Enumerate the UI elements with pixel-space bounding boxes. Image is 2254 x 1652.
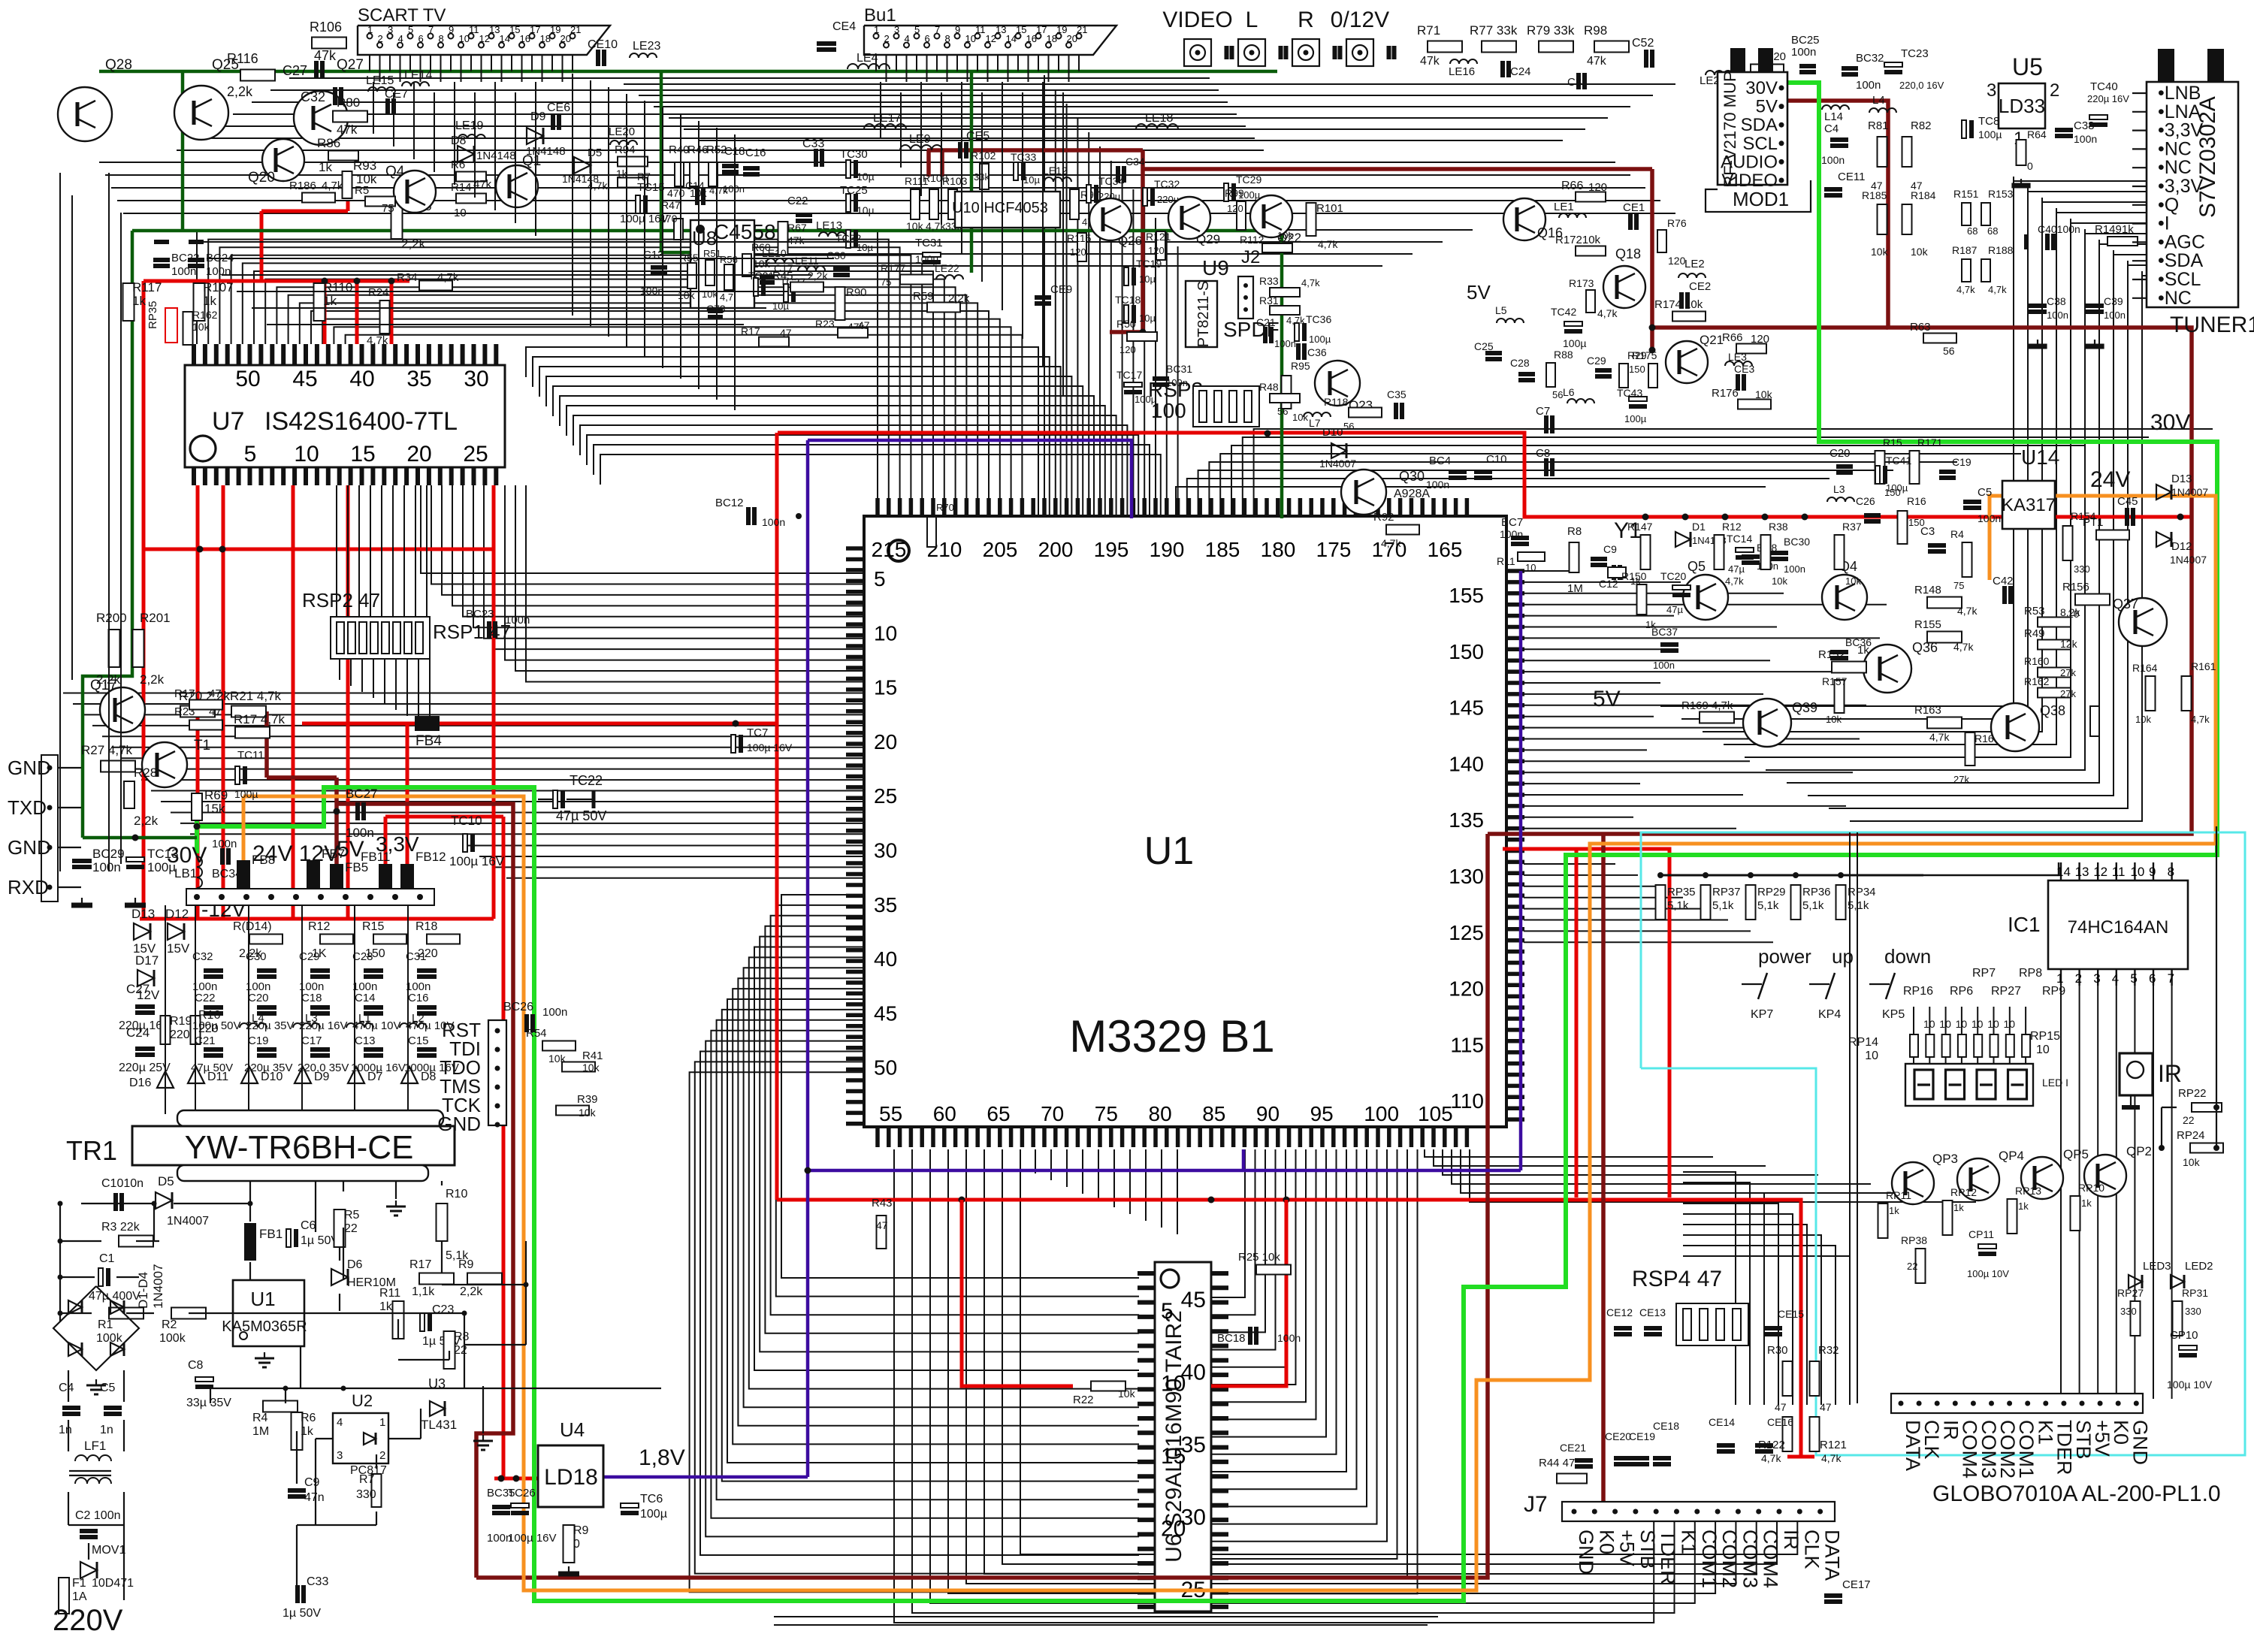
resistor R69 xyxy=(192,793,202,820)
svg-text:17: 17 xyxy=(1036,24,1047,35)
capacitor CE15 xyxy=(1764,1326,1782,1330)
svg-text:30V: 30V xyxy=(1745,78,1778,98)
svg-text:R16: R16 xyxy=(1907,495,1926,507)
resistor RP10 xyxy=(2071,1196,2080,1231)
capacitor CE5 xyxy=(958,142,962,159)
svg-text:D13: D13 xyxy=(131,907,155,921)
svg-text:LE23: LE23 xyxy=(633,40,660,53)
resistor R115 xyxy=(1077,233,1086,261)
svg-text:27k: 27k xyxy=(1953,774,1969,785)
svg-text:TC14: TC14 xyxy=(1727,533,1752,545)
svg-text:10µ: 10µ xyxy=(857,204,875,216)
svg-text:•I: •I xyxy=(2158,213,2170,234)
capacitor BC26 xyxy=(524,1014,529,1032)
svg-text:R12: R12 xyxy=(1722,521,1742,533)
svg-text:8: 8 xyxy=(945,33,950,44)
svg-text:TR1: TR1 xyxy=(66,1135,117,1166)
svg-text:TC29: TC29 xyxy=(1236,174,1261,186)
inductor LE19 xyxy=(458,134,485,139)
svg-text:R17: R17 xyxy=(741,325,760,337)
svg-text:R148: R148 xyxy=(1914,584,1941,596)
transistor Q25 xyxy=(174,86,228,140)
svg-text:5,1k: 5,1k xyxy=(1802,899,1824,912)
capacitor TC13 xyxy=(126,857,144,862)
svg-text:LE2: LE2 xyxy=(1684,258,1705,270)
svg-text:7: 7 xyxy=(935,24,940,35)
diode D11 xyxy=(188,1067,204,1083)
resistor R19 xyxy=(161,1016,171,1044)
capacitor C27t xyxy=(314,61,319,79)
svg-text:16: 16 xyxy=(1026,33,1037,44)
svg-text:C27: C27 xyxy=(283,63,307,78)
svg-text:R117: R117 xyxy=(132,280,162,294)
svg-text:R186: R186 xyxy=(289,180,316,192)
svg-text:10k: 10k xyxy=(1772,575,1787,587)
svg-text:TUNER1: TUNER1 xyxy=(2170,313,2254,337)
svg-text:C29: C29 xyxy=(1587,355,1606,367)
resistor R47 xyxy=(674,219,683,240)
svg-text:3: 3 xyxy=(2093,971,2100,986)
svg-text:D13: D13 xyxy=(2171,473,2192,485)
svg-text:R9: R9 xyxy=(458,1258,474,1271)
capacitor CE6 xyxy=(551,113,555,130)
resistor R162t xyxy=(183,312,193,345)
capacitor C26 xyxy=(1864,513,1881,518)
capacitor CE21 xyxy=(1575,1458,1593,1463)
svg-text:2,2k: 2,2k xyxy=(134,814,159,828)
svg-text:R45: R45 xyxy=(772,270,793,282)
resistor R147 xyxy=(1641,535,1651,569)
resistor R93 xyxy=(343,171,352,198)
svg-text:IR: IR xyxy=(1780,1530,1802,1550)
svg-text:4,7k: 4,7k xyxy=(1318,238,1338,250)
svg-text:CE4: CE4 xyxy=(832,20,856,33)
IC U7 IS42S16400-7TL body xyxy=(185,365,505,467)
svg-text:10: 10 xyxy=(2068,608,2080,620)
capacitor TC32b xyxy=(1143,188,1147,206)
svg-text:COM2: COM2 xyxy=(1718,1530,1741,1588)
svg-text:15k: 15k xyxy=(204,802,225,816)
capacitor TC31 xyxy=(923,252,941,257)
resistor R80 xyxy=(333,111,367,122)
svg-text:CE19: CE19 xyxy=(1629,1430,1655,1442)
svg-text:2,2k: 2,2k xyxy=(239,947,262,960)
resistor R16m xyxy=(1898,511,1908,544)
svg-text:C7: C7 xyxy=(1536,405,1550,418)
svg-text:4,7k: 4,7k xyxy=(1988,284,2007,295)
svg-text:BC4: BC4 xyxy=(1429,455,1451,467)
svg-text:C24: C24 xyxy=(126,1025,150,1040)
svg-text:R98: R98 xyxy=(1584,23,1607,38)
IC U1b KA5M0365R xyxy=(233,1280,304,1346)
svg-text:IC1: IC1 xyxy=(2008,913,2041,936)
diode D8 xyxy=(401,1067,418,1083)
svg-text:R39: R39 xyxy=(577,1093,598,1106)
svg-text:BC7: BC7 xyxy=(1501,516,1523,529)
svg-text:2,2k: 2,2k xyxy=(948,292,970,305)
svg-text:R29: R29 xyxy=(1627,349,1647,361)
svg-text:RP16: RP16 xyxy=(1903,985,1933,998)
wire bus: U1 left pins 27-32 feed xyxy=(466,846,864,878)
resistor R17b xyxy=(235,727,270,738)
svg-text:R76: R76 xyxy=(1667,217,1687,229)
svg-text:D12: D12 xyxy=(165,907,189,921)
capacitor C30m xyxy=(833,267,850,271)
svg-text:LD18: LD18 xyxy=(544,1465,598,1490)
svg-text:R5: R5 xyxy=(355,184,369,197)
svg-text:20: 20 xyxy=(874,730,897,754)
svg-text:47k: 47k xyxy=(1420,55,1440,68)
svg-text:LE15: LE15 xyxy=(366,74,394,87)
wire bus: bottom long horizontals xyxy=(774,1617,1438,1625)
svg-text:R59: R59 xyxy=(913,290,934,303)
svg-text:LE3: LE3 xyxy=(1728,351,1747,363)
svg-text:5,1k: 5,1k xyxy=(1667,899,1689,912)
capacitor TC6 xyxy=(621,1503,639,1508)
transistor Q26 xyxy=(1089,198,1132,240)
svg-text:2: 2 xyxy=(884,33,890,44)
svg-text:100k: 100k xyxy=(159,1332,186,1345)
wire bus: tuner area vertical bundle xyxy=(1660,177,2147,821)
resistor R16b xyxy=(191,1016,201,1044)
svg-text:GND: GND xyxy=(437,1113,481,1135)
svg-text:•SCL: •SCL xyxy=(2158,269,2201,290)
svg-text:R93: R93 xyxy=(353,159,376,173)
capacitor C33m xyxy=(814,149,818,167)
svg-text:D10: D10 xyxy=(1322,426,1343,439)
resistor R117 xyxy=(123,283,134,321)
capacitor CP11 xyxy=(1978,1244,1996,1249)
capacitor BC12 xyxy=(746,507,751,525)
keypad bus xyxy=(1660,874,1923,877)
resistor R49 xyxy=(2038,640,2071,650)
svg-text:10k: 10k xyxy=(192,321,210,333)
transistor Q36 xyxy=(1863,645,1911,693)
optocoupler U2 PC817 xyxy=(333,1413,388,1463)
svg-text:9: 9 xyxy=(955,24,960,35)
svg-text:R46: R46 xyxy=(687,143,709,156)
svg-text:R64: R64 xyxy=(2027,128,2047,140)
capacitor C73 xyxy=(708,309,723,313)
svg-text:100: 100 xyxy=(1364,1102,1399,1125)
resistor RP27b xyxy=(2131,1301,2141,1336)
resistor R71 xyxy=(1428,41,1462,53)
svg-text:R53: R53 xyxy=(2024,605,2045,618)
svg-text:R48: R48 xyxy=(1259,381,1279,393)
svg-text:R152: R152 xyxy=(1818,648,1845,661)
svg-text:1k: 1k xyxy=(319,160,332,174)
svg-text:C9: C9 xyxy=(1603,543,1617,555)
svg-text:4,7k: 4,7k xyxy=(1953,641,1974,653)
svg-text:C6: C6 xyxy=(301,1219,316,1232)
svg-text:TC15: TC15 xyxy=(637,181,665,194)
wire bus: keypad and display wiring staircase xyxy=(1683,977,2172,1405)
svg-text:C9: C9 xyxy=(304,1476,320,1489)
svg-text:R161: R161 xyxy=(2191,660,2216,672)
wire red bottom rail to R122 xyxy=(777,1200,1801,1457)
svg-text:LF1: LF1 xyxy=(84,1439,106,1453)
svg-text:CE9: CE9 xyxy=(1050,283,1072,296)
resistor R77 xyxy=(1482,41,1516,53)
svg-text:120: 120 xyxy=(1668,255,1686,267)
svg-text:330: 330 xyxy=(2185,1306,2201,1317)
svg-text:C32: C32 xyxy=(301,89,325,104)
svg-text:2: 2 xyxy=(379,1449,385,1462)
svg-text:R185: R185 xyxy=(1862,189,1887,201)
svg-text:R177: R177 xyxy=(881,262,906,274)
resistor R17t xyxy=(189,700,222,710)
wire red R22 branch xyxy=(962,1200,1073,1386)
svg-text:1k: 1k xyxy=(301,1425,314,1438)
capacitor TC19 xyxy=(1124,267,1129,285)
transistor Q4 xyxy=(394,171,436,213)
svg-text:R157: R157 xyxy=(1822,675,1848,687)
capacitor TC41 xyxy=(1875,466,1880,484)
resistor R152 xyxy=(1832,662,1866,673)
svg-text:120: 120 xyxy=(1148,245,1165,256)
diode D9 xyxy=(295,1067,311,1083)
svg-text:C22: C22 xyxy=(787,195,808,207)
svg-text:RP37: RP37 xyxy=(1712,886,1741,898)
svg-text:1k: 1k xyxy=(132,294,146,308)
resistor R60 xyxy=(742,254,751,276)
capacitor C21m xyxy=(1263,327,1267,343)
wire psu area connections xyxy=(60,1181,661,1600)
transistor T1 xyxy=(142,742,187,787)
svg-text:•NC: •NC xyxy=(2158,138,2192,159)
svg-text:1K: 1K xyxy=(312,947,327,960)
svg-text:R37: R37 xyxy=(1842,521,1862,533)
svg-text:100n: 100n xyxy=(1277,1332,1301,1344)
resistor R149 xyxy=(2107,237,2138,246)
ferrite FB5 xyxy=(330,864,343,892)
svg-text:120: 120 xyxy=(1751,333,1769,346)
transistor Q30 xyxy=(1341,470,1386,515)
svg-text:120: 120 xyxy=(1449,977,1484,1001)
wire red right side branch xyxy=(1503,849,1669,1197)
resistor R7t xyxy=(618,178,648,188)
svg-text:15V: 15V xyxy=(167,941,190,956)
svg-text:R169 4,7k: R169 4,7k xyxy=(1681,699,1733,712)
svg-text:5: 5 xyxy=(914,24,920,35)
svg-text:15: 15 xyxy=(1016,24,1026,35)
svg-text:C3: C3 xyxy=(1920,525,1935,538)
svg-text:R19: R19 xyxy=(170,1015,192,1028)
resistor R8b xyxy=(444,1331,455,1369)
svg-text:100µ: 100µ xyxy=(1978,128,2002,140)
resistor R175 xyxy=(1648,364,1657,388)
resistor R174 xyxy=(1672,312,1706,322)
capacitor TC15 xyxy=(636,195,640,213)
svg-text:R95: R95 xyxy=(1291,360,1310,372)
fuse F1 xyxy=(59,1578,69,1614)
capacitor C10 10n xyxy=(113,1193,118,1211)
resistor R34 xyxy=(419,281,452,291)
inductor LE23 xyxy=(630,53,657,58)
wire bus: left edge verticals xyxy=(60,173,1857,1403)
svg-text:90: 90 xyxy=(1256,1102,1280,1125)
capacitor C29 xyxy=(310,968,330,973)
transistor QP4 xyxy=(1957,1158,1999,1200)
svg-text:M3329 B1: M3329 B1 xyxy=(1069,1011,1275,1062)
svg-text:13: 13 xyxy=(2075,865,2089,879)
svg-text:RP7: RP7 xyxy=(1972,967,1996,980)
resistor R121b xyxy=(1810,1417,1820,1451)
svg-text:100µ: 100µ xyxy=(1309,334,1331,345)
inductor LE12 xyxy=(1044,177,1071,182)
ferrite FB1 xyxy=(244,1223,256,1261)
capacitor BC35 xyxy=(492,1505,510,1509)
svg-text:22: 22 xyxy=(1907,1261,1917,1272)
svg-text:C1010n: C1010n xyxy=(101,1177,144,1190)
svg-text:U9: U9 xyxy=(1202,256,1229,279)
svg-text:1k: 1k xyxy=(323,294,337,308)
LED LED2 xyxy=(2171,1275,2184,1288)
svg-text:C39: C39 xyxy=(2104,295,2123,307)
svg-text:BC12: BC12 xyxy=(715,497,744,509)
svg-text:U1: U1 xyxy=(1144,829,1194,873)
resistor R28 xyxy=(124,781,134,808)
svg-text:C38: C38 xyxy=(2047,295,2066,307)
capacitor TC43 xyxy=(1629,397,1647,401)
capacitor C19 xyxy=(257,1047,276,1052)
svg-text:100n: 100n xyxy=(1856,79,1881,92)
resistor R40 xyxy=(675,162,684,186)
transistor Q38 xyxy=(1991,703,2039,751)
svg-text:C23: C23 xyxy=(432,1303,454,1316)
svg-text:R106: R106 xyxy=(310,20,342,35)
svg-text:60: 60 xyxy=(933,1102,956,1125)
svg-text:SDA: SDA xyxy=(1741,115,1778,135)
svg-text:11: 11 xyxy=(469,24,479,35)
capacitor C8m xyxy=(1544,458,1548,476)
svg-text:Q27: Q27 xyxy=(337,57,364,73)
svg-text:D9: D9 xyxy=(530,110,546,123)
svg-text:40: 40 xyxy=(1181,1361,1206,1385)
resistor R17c xyxy=(419,1273,454,1285)
capacitor C22 xyxy=(204,1005,223,1010)
inductor L5 xyxy=(1497,319,1524,323)
resistor R156 xyxy=(2075,594,2110,606)
capacitor CE20 xyxy=(1614,1456,1632,1460)
resistor R33 xyxy=(1270,288,1300,297)
svg-text:TXD: TXD xyxy=(8,796,47,819)
resistor RP35 xyxy=(1656,885,1666,920)
svg-text:GND: GND xyxy=(8,836,51,859)
svg-text:100n: 100n xyxy=(542,1006,567,1019)
resistor R2 xyxy=(171,1308,206,1319)
svg-text:5,1k: 5,1k xyxy=(1757,899,1779,912)
svg-text:2,2k: 2,2k xyxy=(460,1285,483,1298)
svg-text:1: 1 xyxy=(367,24,373,35)
svg-text:100n: 100n xyxy=(1784,563,1805,575)
capacitor C19m xyxy=(1939,470,1956,474)
svg-text:C17: C17 xyxy=(301,1034,322,1047)
svg-text:5V: 5V xyxy=(1756,97,1778,117)
svg-text:R92: R92 xyxy=(1373,511,1394,524)
svg-text:20: 20 xyxy=(560,33,571,44)
resistor R116 xyxy=(240,70,275,81)
resistor R66t xyxy=(1576,192,1606,202)
svg-text:R33: R33 xyxy=(1259,275,1279,287)
svg-text:R164: R164 xyxy=(2132,662,2158,674)
resistor R172 xyxy=(1576,246,1606,256)
svg-text:130: 130 xyxy=(1449,865,1484,888)
svg-text:1A: 1A xyxy=(72,1590,87,1603)
resistor R12b xyxy=(320,935,353,944)
capacitor TC18 xyxy=(1124,305,1129,323)
wire red 3,3V FB12 feed xyxy=(406,723,409,864)
wire dark-red 5V net MOD1 to J7 xyxy=(1488,101,2192,834)
svg-text:C21: C21 xyxy=(1256,316,1276,328)
svg-text:LE22: LE22 xyxy=(935,262,959,274)
svg-text:13: 13 xyxy=(489,24,500,35)
svg-text:L1: L1 xyxy=(358,1012,371,1025)
svg-text:K1: K1 xyxy=(1678,1530,1700,1554)
svg-text:R41: R41 xyxy=(582,1049,603,1062)
svg-text:CLK: CLK xyxy=(1800,1530,1823,1569)
wire bus: U1 top middle vertical lines to top connector area xyxy=(1044,75,1178,518)
capacitor BC4 xyxy=(1449,470,1467,474)
svg-text:C16: C16 xyxy=(745,146,766,159)
diode D16 xyxy=(157,1071,174,1088)
resistor R163 xyxy=(1927,717,1962,729)
svg-text:10: 10 xyxy=(2036,1043,2050,1056)
svg-text:Q18: Q18 xyxy=(1615,246,1641,261)
svg-text:CE12: CE12 xyxy=(1606,1306,1633,1318)
svg-text:R40: R40 xyxy=(669,143,690,156)
svg-text:35: 35 xyxy=(406,367,431,391)
svg-text:C26: C26 xyxy=(1856,495,1875,507)
transistor Q21 xyxy=(1666,341,1708,383)
svg-text:12k: 12k xyxy=(2060,638,2078,650)
wire purple 1.8V net xyxy=(603,1475,808,1479)
capacitor BC18 xyxy=(1248,1327,1252,1345)
capacitor BC30 xyxy=(1770,551,1788,555)
svg-text:R15: R15 xyxy=(362,920,384,933)
svg-text:100n: 100n xyxy=(346,826,374,840)
svg-text:10: 10 xyxy=(2130,865,2144,879)
svg-text:2,2k: 2,2k xyxy=(227,84,253,99)
svg-text:C52: C52 xyxy=(1632,37,1654,50)
svg-text:4,7k: 4,7k xyxy=(1725,575,1744,587)
resistor RP36 xyxy=(1791,885,1801,920)
svg-text:RP11: RP11 xyxy=(1886,1189,1911,1201)
svg-text:D17: D17 xyxy=(135,953,159,968)
svg-text:1k: 1k xyxy=(1630,575,1641,587)
svg-text:TC30: TC30 xyxy=(840,148,868,161)
svg-text:C21: C21 xyxy=(195,1034,216,1047)
capacitor CE2 xyxy=(1679,292,1684,309)
transistor Q22 xyxy=(1250,195,1292,237)
IC U1 pins xyxy=(846,498,1524,1147)
svg-text:R6: R6 xyxy=(301,1412,316,1424)
resistor pairs R81 R82 xyxy=(1878,137,1887,167)
svg-text:RP9: RP9 xyxy=(2042,985,2065,998)
svg-text:LE13: LE13 xyxy=(816,219,842,232)
resistor R63 xyxy=(1923,334,1956,343)
svg-text:U14: U14 xyxy=(2021,445,2059,469)
svg-text:R6: R6 xyxy=(451,159,465,171)
svg-text:T1: T1 xyxy=(194,738,210,754)
svg-text:LE4: LE4 xyxy=(857,52,878,65)
svg-text:FB7: FB7 xyxy=(322,847,345,861)
capacitor CE19 xyxy=(1631,1456,1649,1460)
svg-text:BC23: BC23 xyxy=(466,608,494,621)
resistor R27 xyxy=(101,761,135,772)
transistor Q23 xyxy=(1315,361,1360,406)
svg-text:10: 10 xyxy=(1956,1018,1968,1030)
